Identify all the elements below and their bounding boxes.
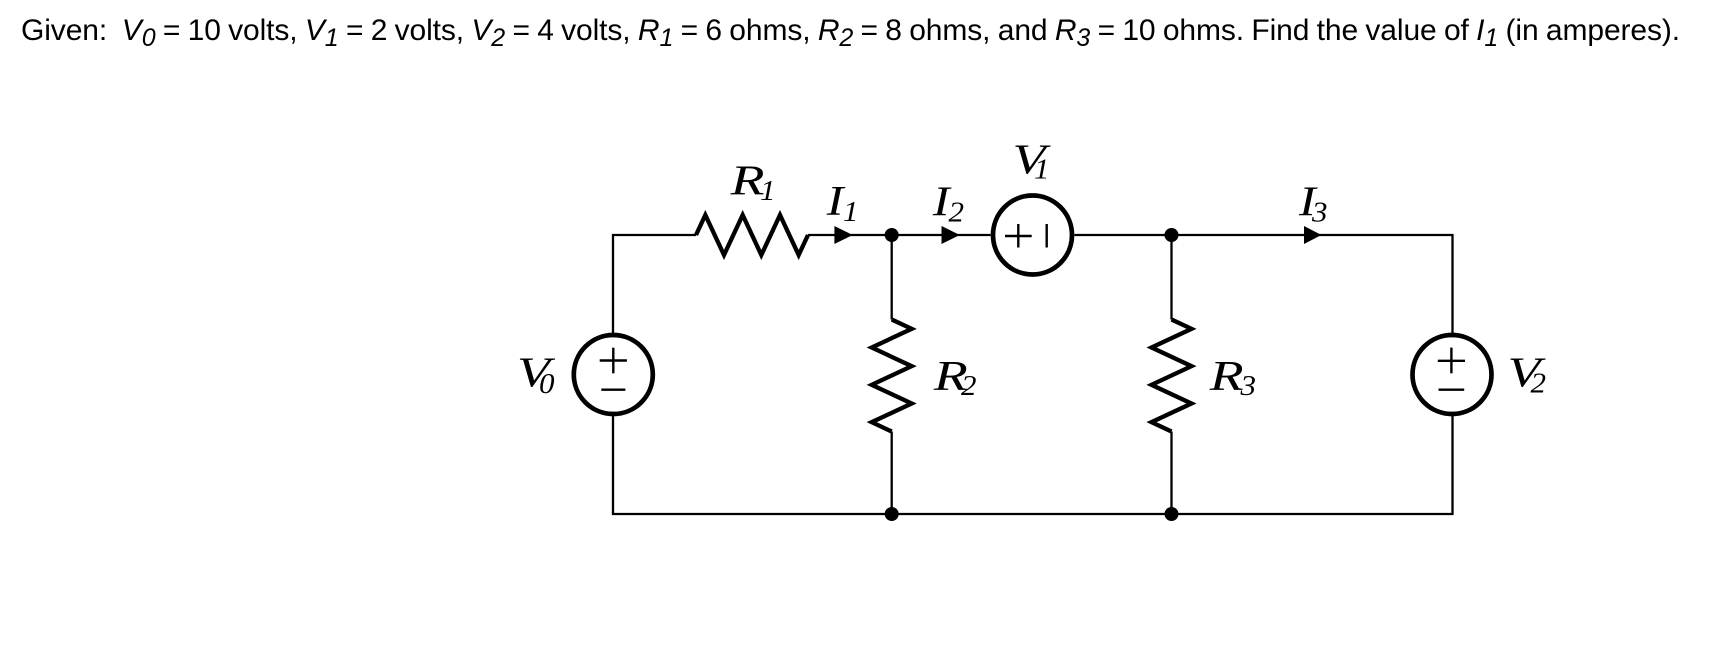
wire from V0 top to R1 (top-left corner): [613, 235, 696, 335]
question text: [21, 14, 1680, 48]
node A (top junction 1): [885, 228, 899, 242]
wire R3 to node D: [1170, 432, 1172, 515]
svg-text:2: 2: [949, 198, 965, 229]
wire V2 bottom to bottom-right corner to node D: [1172, 415, 1453, 515]
svg-text:1: 1: [843, 197, 859, 228]
current arrow I3: [1304, 226, 1321, 244]
label V1: [1013, 137, 1052, 185]
wire V1 to node B: [1075, 234, 1172, 236]
voltage source V0: [574, 335, 653, 414]
label R3: [1208, 354, 1256, 402]
current arrow I1: [834, 226, 852, 244]
resistor R3: [1152, 320, 1192, 432]
svg-text:1: 1: [1034, 155, 1050, 186]
svg-text:3: 3: [1311, 198, 1328, 229]
voltage source V2: [1413, 335, 1492, 414]
wire node B down to R3: [1170, 235, 1172, 320]
label R2: [933, 354, 977, 402]
resistor R2: [872, 320, 912, 432]
current arrow I2: [942, 226, 960, 244]
svg-text:1: 1: [760, 176, 776, 207]
label R1: [729, 158, 775, 207]
wire node D to node C (bottom): [892, 513, 1172, 515]
wire R1 to node A: [808, 234, 892, 236]
wire node A to V1: [892, 234, 991, 236]
svg-text:2: 2: [1531, 369, 1547, 400]
node B (top junction 2): [1165, 228, 1179, 242]
svg-text:0: 0: [539, 369, 555, 400]
voltage source V1: [993, 196, 1072, 275]
label I2: [932, 180, 964, 229]
svg-text:2: 2: [961, 371, 977, 402]
svg-text:R: R: [1208, 354, 1243, 400]
wire node A down to R2: [891, 235, 893, 320]
resistor R1: [696, 215, 808, 255]
wire node C to bottom-left corner up to V0 bottom: [613, 415, 892, 515]
label I1: [826, 179, 859, 228]
node D (bottom junction 2): [1165, 507, 1179, 521]
node C (bottom junction 1): [885, 507, 899, 521]
svg-text:3: 3: [1239, 371, 1256, 402]
wire node B to top-right corner, down to V2: [1172, 235, 1453, 335]
label I3: [1298, 180, 1328, 229]
label V2: [1508, 351, 1547, 400]
label V0: [517, 351, 556, 401]
wire R2 to node C: [891, 432, 893, 515]
